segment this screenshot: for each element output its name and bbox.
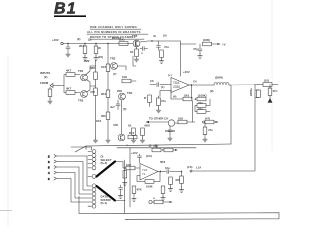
ground arrow: [268, 96, 272, 103]
svg-text:(10): (10): [264, 79, 269, 83]
svg-text:B1: B1: [54, 1, 77, 18]
svg-text:47K: 47K: [113, 123, 118, 127]
wire vert: [121, 100, 123, 134]
resistor R4 on rail: [119, 38, 128, 46]
op-amp U1: [168, 73, 189, 93]
capacitor C3: [193, 44, 202, 54]
svg-text:TO OTHER CH: TO OTHER CH: [149, 117, 168, 121]
svg-text:+V: +V: [222, 43, 226, 47]
ground: [123, 181, 127, 186]
svg-text:(LS): (LS): [187, 165, 193, 169]
capacitor C15: [119, 185, 123, 193]
svg-text:10K: 10K: [178, 117, 183, 121]
diode D2: [165, 120, 175, 133]
svg-text:(2MH): (2MH): [215, 76, 223, 80]
wire connector diag: [75, 146, 86, 152]
svg-text:2M2: 2M2: [84, 59, 90, 63]
inductor L1: [214, 76, 231, 86]
wire main vertical: [107, 44, 109, 64]
capacitor C16 output: [158, 166, 181, 174]
transistor TR4: [119, 91, 133, 100]
svg-text:o: o: [153, 196, 155, 200]
node +40V supply terminal: [61, 42, 63, 44]
resistor R22: [175, 117, 195, 124]
wire zobel corner: [255, 85, 263, 171]
wire top rail: [63, 43, 133, 45]
resistor R8: [66, 87, 80, 95]
page bottom-left artifact: [0, 210, 12, 212]
svg-text:47n: 47n: [273, 89, 278, 93]
svg-text:(100K): (100K): [198, 94, 207, 98]
svg-text:47u: 47u: [161, 99, 166, 103]
ground: [48, 99, 52, 104]
svg-text:47K: 47K: [137, 188, 142, 192]
wire inv input: [171, 90, 183, 99]
resistor R35: [169, 177, 173, 187]
resistor R11: [101, 64, 110, 90]
svg-text:1N: 1N: [163, 34, 167, 38]
node jack circles: [149, 145, 151, 147]
svg-text:4: 4: [48, 171, 50, 175]
svg-text:5K6: 5K6: [160, 160, 166, 164]
svg-text:1K: 1K: [98, 46, 102, 50]
svg-text:10K: 10K: [126, 163, 131, 167]
diode D1: [140, 34, 167, 43]
svg-text:+40V: +40V: [52, 38, 59, 42]
node FROM input arrow: [40, 81, 58, 88]
wire bottom line 2: [125, 213, 279, 220]
ground: [66, 52, 70, 57]
wire output down: [230, 85, 232, 144]
resistor R24: [152, 144, 161, 152]
svg-text:4x: 4x: [153, 34, 157, 38]
ground: [118, 194, 122, 199]
svg-text:+15V: +15V: [131, 151, 138, 155]
resistor R19: [183, 94, 192, 101]
title underline: [54, 15, 86, 17]
svg-text:47u: 47u: [208, 128, 213, 132]
svg-text:1K: 1K: [130, 50, 134, 54]
svg-text:4u7: 4u7: [110, 105, 115, 109]
svg-text:4K7: 4K7: [66, 69, 72, 73]
resistor R31 bottom: [149, 200, 172, 204]
svg-text:TR1: TR1: [78, 69, 84, 73]
svg-text:(1R0): (1R0): [203, 38, 210, 42]
svg-text:TR5: TR5: [132, 34, 138, 38]
transistor TR5: [132, 34, 140, 47]
svg-text:6: 6: [48, 160, 50, 164]
capacitor C5: [116, 100, 120, 110]
svg-text:22K: 22K: [117, 89, 122, 93]
wire inner left: [129, 148, 131, 207]
resistor R21: [144, 95, 151, 107]
wire arrow out: [212, 43, 226, 47]
wire speaker line A: [86, 144, 231, 146]
resistor R3: [94, 44, 101, 56]
node LS junction: [187, 165, 193, 172]
svg-text:BC184: BC184: [112, 36, 121, 40]
svg-text:FROM: FROM: [40, 81, 49, 85]
capacitor C7: [268, 85, 277, 96]
svg-text:10u: 10u: [165, 166, 170, 170]
svg-text:6K8: 6K8: [145, 124, 151, 128]
svg-text:TR3: TR3: [110, 57, 116, 61]
svg-text:47u: 47u: [164, 45, 169, 49]
ground: [161, 196, 165, 201]
ground: [168, 187, 172, 192]
svg-text:22n: 22n: [198, 107, 203, 111]
resistor R25: [162, 148, 177, 152]
capacitor C6: [150, 79, 164, 87]
svg-text:(7): (7): [113, 72, 116, 76]
wire to opamp inputs: [160, 85, 171, 97]
node to-other-channel arrow: [146, 117, 168, 124]
ground: [140, 138, 144, 143]
svg-text:(5+4): (5+4): [101, 201, 108, 205]
resistor R23: [203, 117, 219, 124]
svg-text:L1A: L1A: [196, 166, 201, 170]
ground: [134, 57, 138, 62]
wire box left: [124, 160, 126, 213]
svg-text:R: R: [144, 96, 146, 100]
ground: [106, 138, 110, 143]
wire stage link: [133, 40, 136, 66]
wire collector up: [86, 66, 96, 75]
resistor R5: [203, 38, 212, 46]
svg-text:2K2: 2K2: [79, 44, 85, 48]
resistor R27 shunt: [123, 167, 127, 180]
wire output node: [189, 84, 214, 86]
switch wedge 1: [97, 162, 116, 177]
svg-text:(4): (4): [173, 95, 176, 99]
ground: [156, 108, 160, 113]
resistor R28 feedback: [145, 172, 160, 189]
svg-text:(+): (+): [168, 73, 172, 77]
svg-text:(5): (5): [123, 107, 126, 111]
svg-text:560: 560: [101, 114, 106, 118]
svg-text:TR2: TR2: [78, 99, 84, 103]
resistor R32: [161, 186, 165, 196]
svg-text:2200u: 2200u: [249, 88, 253, 96]
svg-text:(5+4): (5+4): [101, 161, 108, 165]
svg-text:600: 600: [176, 178, 181, 182]
resistor R33: [160, 50, 164, 59]
ground: [93, 138, 97, 143]
connector pin stubs: [57, 147, 92, 206]
svg-text:3: 3: [48, 177, 50, 181]
svg-text:47p: 47p: [193, 47, 198, 51]
wire output right faint: [231, 84, 255, 87]
resistor R6: [48, 87, 52, 99]
svg-text:(2): (2): [44, 75, 47, 79]
svg-text:1K0: 1K0: [96, 119, 102, 123]
svg-text:n: n: [141, 51, 143, 55]
resistor R20: [195, 94, 207, 101]
op-amp U2: [140, 164, 158, 181]
capacitor C11: [157, 96, 166, 108]
svg-text:2: 2: [48, 155, 50, 159]
wire to supply branch: [157, 41, 181, 76]
wire feedback down: [191, 85, 193, 99]
resistor R18 zobel: [263, 79, 278, 87]
page left edge artifact: [7, 55, 9, 226]
wire wedge2 out: [115, 200, 125, 202]
ground: [132, 197, 136, 202]
svg-text:(1): (1): [161, 85, 164, 89]
ground: [198, 54, 202, 59]
wire box top E: [117, 147, 196, 149]
capacitor C8 on LS line: [249, 88, 260, 98]
svg-text:68K: 68K: [90, 66, 95, 70]
capacitor C10: [195, 99, 210, 113]
wire input split: [58, 75, 66, 93]
wire emitter join: [87, 80, 96, 93]
label squiggles: [77, 36, 213, 200]
svg-text:C6: C6: [150, 79, 154, 83]
svg-text:10K: 10K: [122, 75, 127, 79]
capacitor C14: [138, 154, 142, 163]
ground: [168, 136, 172, 141]
capacitor C17: [140, 47, 148, 56]
capacitor C2: [157, 41, 170, 50]
resistor R16: [128, 124, 135, 139]
ground: [159, 59, 163, 64]
ground: [83, 56, 87, 61]
resistor R17: [141, 124, 150, 139]
transistor TR1: [78, 69, 87, 81]
resistor R7: [66, 69, 80, 77]
svg-text:1K: 1K: [128, 124, 132, 128]
connector contacts column: [92, 150, 96, 209]
resistor R2: [79, 44, 87, 56]
resistor R12: [101, 90, 110, 112]
page right edge artifact: [271, 0, 273, 150]
transistor TR2: [78, 91, 87, 103]
wire vert link: [192, 101, 194, 122]
resistor R26 input: [115, 162, 140, 170]
svg-text:(3): (3): [88, 38, 91, 42]
svg-text:(47): (47): [205, 117, 210, 121]
svg-text:2K2: 2K2: [101, 92, 107, 96]
switch wedge 2: [97, 186, 116, 201]
svg-text:22n: 22n: [198, 101, 203, 105]
svg-text:1K5: 1K5: [101, 65, 107, 69]
svg-text:47K: 47K: [90, 90, 95, 94]
wire fb loop: [137, 176, 145, 182]
svg-text:1K0: 1K0: [184, 94, 190, 98]
ground: [94, 56, 98, 61]
wire speaker line D: [192, 170, 255, 172]
resistor R15: [128, 131, 137, 139]
wire branch to R5: [181, 43, 197, 45]
capacitor C1: [66, 44, 70, 52]
ground: [203, 137, 207, 142]
svg-text:5: 5: [48, 166, 50, 170]
wire TR3 to branch: [118, 66, 127, 70]
svg-text:71: 71: [142, 172, 146, 176]
resistor R13: [101, 112, 110, 138]
transistor TR3: [110, 57, 117, 70]
svg-text:o: o: [126, 143, 128, 147]
svg-text:ONE CHANNEL ONLY SHOWN: ONE CHANNEL ONLY SHOWN: [90, 25, 137, 29]
ground: [179, 188, 183, 193]
svg-text:C4: C4: [193, 80, 197, 84]
capacitor C12: [168, 126, 172, 135]
resistor R9: [90, 60, 97, 80]
connector pin chevrons: [48, 155, 57, 182]
svg-text:(1/2): (1/2): [146, 154, 152, 158]
resistor R30: [176, 171, 184, 188]
svg-text:2030: 2030: [173, 85, 180, 89]
svg-text:(22): (22): [98, 55, 103, 59]
resistor R10: [90, 80, 97, 139]
svg-text:TR4: TR4: [127, 91, 133, 95]
svg-text:+40V: +40V: [183, 70, 190, 74]
resistor R29: [132, 186, 141, 196]
svg-text:100K: 100K: [146, 185, 153, 189]
svg-text:(2): (2): [77, 37, 80, 41]
ground: [131, 138, 135, 143]
resistor R14: [122, 75, 136, 83]
capacitor C13: [203, 123, 213, 137]
resistor R34: [130, 47, 138, 57]
svg-text:4K7: 4K7: [66, 87, 72, 91]
capacitor C9: [197, 101, 206, 107]
transistor TR6: [118, 134, 125, 141]
svg-text:(9): (9): [210, 89, 213, 93]
wire bottom line 1: [79, 196, 279, 214]
